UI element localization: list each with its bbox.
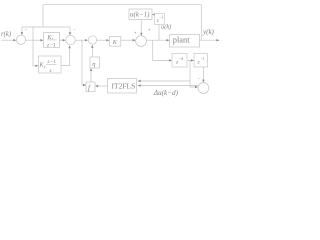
arrowhead output y(k) [216,39,219,41]
wire u(k-d) branch to IT2FLS upper input [141,80,191,82]
wire z^-1 output down into S4 top [202,67,204,80]
svg-text:−: − [25,28,28,33]
arrowhead into S3 top [140,33,142,36]
block K gain [110,37,121,47]
wire Kc output up into S2 bottom [61,48,70,65]
plus sign left of S3 top [134,30,137,36]
svg-text:−1: −1 [50,59,56,65]
svg-text:u(k): u(k) [161,24,171,31]
block u(k-1) register [129,9,152,20]
svg-text:−1: −1 [50,42,56,48]
block Ki/(z-1) [44,32,60,47]
block plant [170,35,200,48]
wire feedback top horizontal [43,4,201,6]
block eta [90,57,100,68]
summing junction S2 [66,35,75,44]
wire K block to summing junction S3 [121,39,133,41]
summing junction S1 [16,35,25,44]
wire S2 to multiplier M1 with tap node [75,39,85,41]
svg-text:−d: −d [179,56,183,61]
wire feedback into S1 top [21,27,23,32]
block z^-1 bottom delay [194,54,208,68]
svg-text:u(k−1): u(k−1) [130,10,150,18]
wire S1 output to Ki block [26,39,41,41]
arrowhead into plant [166,39,169,41]
wire tap down from main line to z^-d delay [153,40,169,60]
arrowhead into z^-d [169,59,172,61]
wire feedback tap up from output [200,5,202,41]
minus sign at S2 top [73,29,76,34]
svg-text:IT2FLS: IT2FLS [112,82,136,91]
arrowhead into S4 top [202,80,204,83]
feedback vertical into S2 top [69,27,71,32]
node u(k) label [161,24,171,31]
summing junction S3 [136,36,147,47]
wire r(k) to summing junction S1 [2,39,14,41]
svg-text:r(k): r(k) [1,31,12,38]
svg-text:f: f [88,84,91,92]
arrowhead into S2 bottom [68,45,70,48]
arrowhead into Kc block [35,65,38,67]
block z^-d delay [172,54,187,68]
wire S4 output Delta u to IT2FLS lower input [141,85,199,87]
wire eta up into M1 bottom [91,47,93,57]
wire M1 to K block [97,39,107,41]
wire f up to eta block [90,71,92,83]
wire error tap down to Kc block crossing main wire [33,27,36,66]
block Kc(z-1)/z [39,56,62,73]
arrowhead into Ki block [40,39,43,41]
svg-text:−: − [198,77,201,82]
arrowhead into K block [106,39,109,41]
arrowhead into f left [83,84,86,86]
block z^-1 top delay [155,14,165,25]
wire z^-d to z^-1 bottom delay [187,59,192,61]
svg-text:Δu(k−d): Δu(k−d) [153,89,179,97]
svg-text:K: K [112,39,118,46]
summing junction S4 [198,83,209,94]
node y(k) label [202,28,215,36]
wire Ki block to summing junction S2 [59,39,63,41]
wire tap down to f block [82,40,84,85]
arrowhead into IT2FLS upper right [138,80,141,82]
minus sign at S1 top [25,28,28,33]
wire IT2FLS to f [98,85,108,87]
svg-text:η: η [92,61,95,68]
arrowhead into S4 left [195,86,198,88]
block f [86,82,95,92]
arrowhead into M1 left [85,39,88,41]
svg-text:+: + [148,28,151,34]
arrowhead into S2 top [69,32,71,35]
arrowhead into S1 top [21,32,23,35]
arrowhead into u(k-1) right edge [152,13,155,15]
arrowhead into eta bottom [90,68,92,71]
wire tap from main line up into z^-1 top delay [158,25,160,41]
arrowhead into S1 [13,39,16,41]
fraction bar in Kc block [47,64,57,66]
fraction bar in Ki block [47,39,57,41]
arrowhead into IT2FLS lower right [138,84,141,86]
arrowhead into f right [95,85,98,87]
svg-text:y(k): y(k) [202,28,215,36]
minus sign at S4 top [198,77,201,82]
node r(k) input label [1,31,12,38]
arrowhead into z^-1 bottom delay [191,59,194,61]
wire u(k-1) box down into S3 top [140,20,142,33]
wire feedback inner horizontal [22,26,70,28]
svg-text:−1: −1 [201,56,205,61]
arrowhead into S3 left [133,39,136,41]
node Delta u(k-d) label [153,89,179,97]
multiplier junction M1 [88,36,96,44]
block IT2FLS [108,79,137,94]
svg-text:c: c [44,64,46,69]
wire plant output to y(k) [200,39,217,41]
arrowhead into S2 left [63,39,66,41]
wire junction u(k-d) down to corner [190,60,196,87]
svg-text:−: − [73,29,76,34]
arrowhead into M1 bottom [91,45,93,48]
wire S3 output to plant [146,39,166,41]
wire feedback drop to inner line [42,5,44,27]
svg-text:+: + [134,30,137,36]
svg-text:−1: −1 [160,15,164,20]
svg-text:plant: plant [173,36,190,45]
plus sign right of S3 top input [148,28,151,34]
